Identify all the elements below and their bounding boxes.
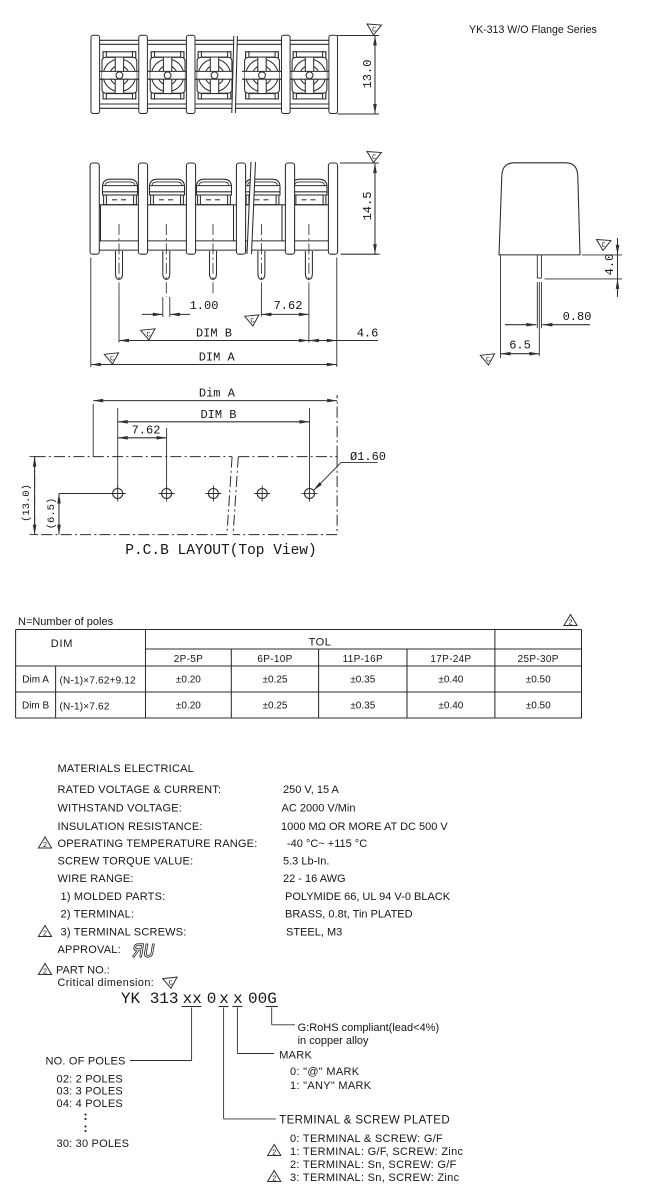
svg-text:DIM B: DIM B: [196, 327, 232, 341]
side profile body: [499, 163, 580, 255]
part number underlines: [182, 1006, 202, 1008]
dimension (6.5): [58, 494, 60, 535]
svg-text:1000 MΩ OR MORE AT DC 500 V: 1000 MΩ OR MORE AT DC 500 V: [281, 821, 448, 833]
pole 1 wire slot lines (top view): [100, 70, 140, 72]
svg-text:2P-5P: 2P-5P: [174, 654, 203, 665]
revision triangle at plating option 1: [268, 1145, 281, 1156]
svg-text:±0.40: ±0.40: [438, 675, 463, 686]
svg-text:YK-313 W/O Flange Series: YK-313 W/O Flange Series: [469, 24, 597, 36]
dimension 0.80: [505, 324, 536, 326]
pole 3 screw dome (front view): [197, 179, 232, 195]
pole 5 solder pin (front view): [305, 251, 312, 279]
svg-text:±0.50: ±0.50: [526, 701, 551, 712]
svg-text:3: TERMINAL: Sn, SCREW: Zinc: 3: TERMINAL: Sn, SCREW: Zinc: [290, 1172, 460, 1184]
pole 1 screw housing (top view): [102, 57, 137, 93]
break lines (top view): [232, 36, 238, 113]
pcb board outline left part (phantom): [35, 456, 233, 458]
pole 2 screw head circles (top view): [151, 59, 183, 91]
critical dimension symbol at DIM B: [141, 329, 156, 341]
leader line terminal plating: [223, 1008, 225, 1119]
svg-text:-40 °C~ +115 °C: -40 °C~ +115 °C: [287, 838, 367, 850]
revision triangle at terminal screws: [38, 926, 51, 937]
svg-text:POLYMIDE 66, UL 94 V-0 BLACK: POLYMIDE 66, UL 94 V-0 BLACK: [285, 891, 451, 903]
pole 3 cavity side walls (front view): [194, 205, 196, 242]
pole 5 screw cross slot (top view): [305, 58, 313, 93]
svg-text:Ø1.60: Ø1.60: [350, 450, 386, 464]
pole 4 solder pin (front view): [258, 251, 265, 279]
svg-text:2: TERMINAL: Sn, SCREW: G/F: 2: TERMINAL: Sn, SCREW: G/F: [290, 1159, 457, 1171]
svg-text:(N-1)×7.62: (N-1)×7.62: [60, 702, 110, 713]
pole 1 screw dome (front view): [103, 179, 138, 195]
dimension 4.6: [309, 340, 378, 342]
svg-text:P.C.B LAYOUT(Top View): P.C.B LAYOUT(Top View): [125, 543, 316, 559]
critical dimension symbol at 13.0: [366, 24, 381, 35]
pole 1 solder pin (front view): [116, 251, 123, 279]
svg-text:Dim A: Dim A: [22, 675, 49, 686]
svg-text:C: C: [110, 355, 115, 363]
leader line mark: [236, 1008, 238, 1054]
pole 2 screw dome (front view): [150, 179, 185, 195]
svg-text:6.5: 6.5: [509, 339, 531, 353]
pole 3 solder pin (front view): [210, 251, 217, 279]
pole 4 wire slot lines (top view): [242, 70, 282, 72]
svg-text:1) MOLDED PARTS:: 1) MOLDED PARTS:: [61, 891, 166, 903]
revision triangle at plating option 3: [268, 1171, 281, 1182]
pole 4 screw housing (top view): [245, 57, 280, 93]
dimension (13.0): [30, 456, 37, 458]
svg-text:C: C: [486, 356, 491, 364]
table frame: [16, 629, 582, 631]
svg-text:00G: 00G: [248, 990, 277, 1008]
pole 2 wire slot lines (top view): [148, 70, 188, 72]
svg-text:2: 2: [43, 840, 47, 849]
pole 2 clamp plates (top view): [151, 52, 184, 57]
pole 2 cavity side walls (front view): [147, 205, 149, 242]
svg-text:4.0: 4.0: [603, 254, 617, 276]
side profile pin upper: [536, 255, 538, 278]
svg-text:11P-16P: 11P-16P: [343, 654, 383, 665]
svg-text:±0.35: ±0.35: [350, 675, 375, 686]
pole 5 clamp plates (top view): [293, 52, 326, 57]
critical dimension symbol at 7.62: [245, 315, 260, 327]
svg-text:17P-24P: 17P-24P: [430, 654, 471, 665]
svg-text:2) TERMINAL:: 2) TERMINAL:: [61, 909, 135, 921]
svg-text:±0.35: ±0.35: [350, 701, 375, 712]
svg-text:13.0: 13.0: [361, 60, 375, 89]
revision triangle at part no: [38, 964, 51, 975]
dimension DIM A (front view): [91, 364, 337, 366]
pole 3 screw housing (top view): [197, 57, 232, 93]
pole 1 clamp plates (top view): [103, 52, 136, 57]
dimension 13.0: [374, 36, 376, 115]
svg-text:Critical dimension:: Critical dimension:: [58, 977, 155, 989]
dimension 13.0 extension lines: [338, 35, 380, 37]
svg-text:0: 0: [207, 990, 217, 1008]
pcb board outline right part (phantom): [238, 456, 337, 458]
pole 5 screw head circles (top view): [293, 59, 325, 91]
svg-text:INSULATION RESISTANCE:: INSULATION RESISTANCE:: [58, 821, 203, 833]
svg-text:7.62: 7.62: [274, 299, 303, 313]
svg-text:PART NO.:: PART NO.:: [56, 965, 110, 977]
svg-text:C: C: [250, 317, 255, 325]
svg-text:0: TERMINAL & SCREW: G/F: 0: TERMINAL & SCREW: G/F: [290, 1133, 443, 1145]
svg-text:xx: xx: [183, 990, 202, 1008]
svg-text:DIM B: DIM B: [200, 408, 236, 422]
pole 2 solder pin (front view): [163, 251, 170, 279]
dimension DIM B (front view): [119, 340, 309, 342]
pole 3 clamp plates (top view): [198, 52, 231, 57]
svg-text:MARK: MARK: [279, 1050, 312, 1062]
left extension line (side profile): [500, 255, 502, 358]
break lines (front view): [247, 162, 256, 254]
svg-text:DIM: DIM: [51, 638, 74, 650]
dimension DIM B (pcb): [117, 408, 119, 489]
svg-text:1.00: 1.00: [190, 299, 219, 313]
revision triangle above table: [564, 615, 577, 626]
svg-text:14.5: 14.5: [361, 192, 375, 221]
svg-text:02: 2 POLES: 02: 2 POLES: [57, 1074, 123, 1086]
pole 3 screw cross slot (top view): [210, 58, 218, 93]
hole 1 horizontal extension: [59, 493, 110, 495]
hole 2 (pcb): [162, 489, 172, 499]
pole 2 screw housing (top view): [150, 57, 185, 93]
svg-text:MATERIALS ELECTRICAL: MATERIALS ELECTRICAL: [58, 763, 194, 775]
dimension 4.0: [617, 238, 619, 297]
side profile pin centerline: [538, 282, 540, 356]
dimension Dim A (pcb): [92, 404, 94, 457]
svg-text:±0.25: ±0.25: [263, 675, 288, 686]
svg-text:7.62: 7.62: [132, 424, 161, 438]
svg-text:N=Number of poles: N=Number of poles: [18, 616, 114, 628]
pole 3 clamp (front view): [198, 195, 231, 205]
critical dimension symbol at DIM A: [104, 353, 119, 365]
svg-text:NO. OF POLES: NO. OF POLES: [46, 1056, 126, 1068]
top view body band: [95, 39, 334, 41]
svg-text:YK 313: YK 313: [121, 990, 179, 1008]
critical dimension symbol at 6.5: [480, 354, 495, 366]
svg-text:1: "ANY" MARK: 1: "ANY" MARK: [290, 1080, 372, 1092]
svg-text:±0.20: ±0.20: [176, 701, 201, 712]
svg-text:in copper alloy: in copper alloy: [298, 1035, 369, 1047]
hole 4 (pcb): [257, 489, 267, 499]
svg-text:WITHSTAND VOLTAGE:: WITHSTAND VOLTAGE:: [58, 803, 183, 815]
pole 4 clamp (front view): [246, 195, 279, 205]
pole 4 clamp plates (top view): [246, 52, 279, 57]
svg-text:OPERATING TEMPERATURE RANGE:: OPERATING TEMPERATURE RANGE:: [58, 838, 258, 850]
leader line poles: [191, 1008, 193, 1061]
svg-text:STEEL, M3: STEEL, M3: [286, 927, 342, 939]
hole 1 (pcb): [113, 489, 123, 499]
svg-text:2: 2: [43, 928, 47, 937]
right extension line (front view): [336, 258, 338, 368]
svg-text:G:RoHS compliant(lead<4%): G:RoHS compliant(lead<4%): [298, 1022, 440, 1034]
svg-text:250 V, 15 A: 250 V, 15 A: [283, 784, 340, 796]
svg-text:TOL: TOL: [309, 637, 332, 649]
svg-text:5.3 Lb-In.: 5.3 Lb-In.: [283, 856, 329, 868]
svg-text:±0.20: ±0.20: [176, 675, 201, 686]
svg-text:2: 2: [568, 617, 572, 626]
svg-text:03: 3 POLES: 03: 3 POLES: [57, 1086, 123, 1098]
svg-text:22 - 16 AWG: 22 - 16 AWG: [283, 873, 346, 885]
pole 5 screw dome (front view): [292, 179, 327, 195]
svg-text:C: C: [372, 26, 377, 34]
svg-text:AC 2000 V/Min: AC 2000 V/Min: [282, 803, 356, 815]
svg-text:04: 4 POLES: 04: 4 POLES: [57, 1098, 123, 1110]
svg-text:0: "@" MARK: 0: "@" MARK: [290, 1066, 360, 1078]
svg-text:30: 30 POLES: 30: 30 POLES: [57, 1138, 130, 1150]
svg-text:6P-10P: 6P-10P: [257, 654, 292, 665]
dimension 7.62 (front view): [261, 313, 309, 315]
svg-text:C: C: [168, 980, 173, 988]
svg-text:WIRE RANGE:: WIRE RANGE:: [58, 873, 134, 885]
svg-text:4.6: 4.6: [357, 327, 379, 341]
svg-text:±0.50: ±0.50: [526, 675, 551, 686]
pole 4 screw head circles (top view): [246, 59, 278, 91]
svg-text:3) TERMINAL SCREWS:: 3) TERMINAL SCREWS:: [61, 927, 187, 939]
pin centerlines (front view): [118, 224, 120, 290]
pole 5 wire slot lines (top view): [290, 70, 330, 72]
dimension 6.5: [501, 353, 540, 355]
pole 1 screw head circles (top view): [103, 59, 135, 91]
side profile pin lower: [536, 282, 538, 328]
pole 1 screw cross slot (top view): [115, 58, 123, 93]
svg-text:C: C: [146, 331, 151, 339]
pole 4 cavity side walls (front view): [242, 205, 244, 242]
pole 1 clamp (front view): [104, 195, 137, 205]
hole 5 (pcb): [305, 489, 315, 499]
svg-text:0.80: 0.80: [563, 310, 592, 324]
pole 2 clamp (front view): [151, 195, 184, 205]
svg-text:2: 2: [272, 1147, 276, 1156]
svg-text:APPROVAL:: APPROVAL:: [58, 944, 121, 956]
svg-text:Dim A: Dim A: [199, 387, 236, 401]
dimension 1.00 pin width: [162, 297, 164, 317]
svg-text:TERMINAL & SCREW PLATED: TERMINAL & SCREW PLATED: [279, 1115, 450, 1127]
barrier walls (top view): [91, 35, 100, 113]
pole 5 screw housing (top view): [292, 57, 327, 93]
pole 4 screw dome (front view): [245, 179, 280, 195]
front view base: [99, 240, 328, 242]
pole 4 screw cross slot (top view): [258, 58, 266, 93]
dimension 4.0 extension lines: [582, 254, 622, 256]
svg-text:BRASS, 0.8t, Tin PLATED: BRASS, 0.8t, Tin PLATED: [285, 909, 413, 921]
revision triangle at operating temperature: [38, 837, 51, 848]
critical dimension symbol at 4.0: [596, 240, 611, 251]
svg-text:x: x: [219, 990, 229, 1008]
svg-text:DIM A: DIM A: [199, 351, 236, 365]
critical dimension symbol at 14.5: [366, 152, 381, 163]
svg-text:1: TERMINAL: G/F, SCREW: Zinc: 1: TERMINAL: G/F, SCREW: Zinc: [290, 1146, 464, 1158]
barrier walls (front view): [90, 163, 99, 254]
pole 3 wire slot lines (top view): [195, 70, 235, 72]
svg-text:C: C: [601, 242, 606, 250]
svg-text:C: C: [372, 154, 377, 162]
left extension line (front view): [90, 258, 92, 368]
svg-text:(6.5): (6.5): [46, 498, 58, 530]
svg-text:x: x: [233, 990, 243, 1008]
svg-text:RATED VOLTAGE & CURRENT:: RATED VOLTAGE & CURRENT:: [58, 784, 222, 796]
front view body top surface: [99, 204, 331, 206]
svg-text:25P-30P: 25P-30P: [518, 654, 559, 665]
svg-text:Dim B: Dim B: [22, 701, 50, 712]
hole 3 (pcb): [208, 489, 218, 499]
pole 2 screw cross slot (top view): [163, 58, 171, 93]
pole 5 clamp (front view): [293, 195, 326, 205]
leader line rohs: [271, 1008, 273, 1025]
svg-text:SCREW TORQUE VALUE:: SCREW TORQUE VALUE:: [58, 856, 194, 868]
dimension 7.62 (pcb): [166, 428, 168, 489]
svg-text:2: 2: [43, 966, 47, 975]
svg-text:2: 2: [272, 1173, 276, 1182]
svg-text:(N-1)×7.62+9.12: (N-1)×7.62+9.12: [60, 676, 137, 687]
svg-text:±0.25: ±0.25: [263, 701, 288, 712]
svg-text:(13.0): (13.0): [21, 484, 33, 522]
pole 5 cavity side walls (front view): [289, 205, 291, 242]
pole 3 screw head circles (top view): [198, 59, 230, 91]
dimension 14.5 extension lines: [340, 162, 379, 164]
pole 1 cavity side walls (front view): [100, 205, 102, 242]
svg-text:±0.40: ±0.40: [438, 701, 463, 712]
dimension 14.5: [374, 163, 376, 254]
